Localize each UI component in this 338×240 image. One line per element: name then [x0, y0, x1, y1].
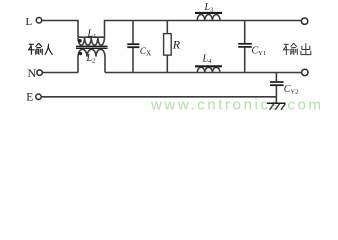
svg-text:CX: CX [140, 47, 151, 58]
svg-text:N: N [28, 66, 37, 80]
svg-text:E: E [26, 91, 33, 103]
svg-text:www.cntronics.com: www.cntronics.com [150, 97, 324, 114]
svg-text:L: L [26, 16, 33, 28]
svg-text:R: R [172, 37, 181, 51]
